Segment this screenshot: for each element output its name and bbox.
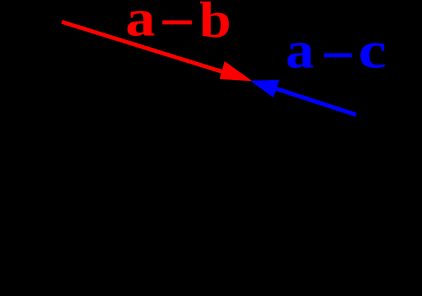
svg-text:b: b: [199, 0, 231, 48]
arrowhead of blue vector a-c: [250, 80, 279, 98]
wire: blue vector shaft c to a: [276, 89, 356, 115]
svg-text:c: c: [358, 21, 386, 79]
label a-c : minus sign: [324, 53, 352, 57]
label a-b : minus sign: [162, 20, 192, 24]
svg-text:a: a: [126, 0, 156, 47]
wire: red vector shaft b to a: [62, 22, 228, 74]
svg-text:a: a: [286, 20, 314, 78]
arrowhead of red vector a-b: [220, 61, 253, 81]
